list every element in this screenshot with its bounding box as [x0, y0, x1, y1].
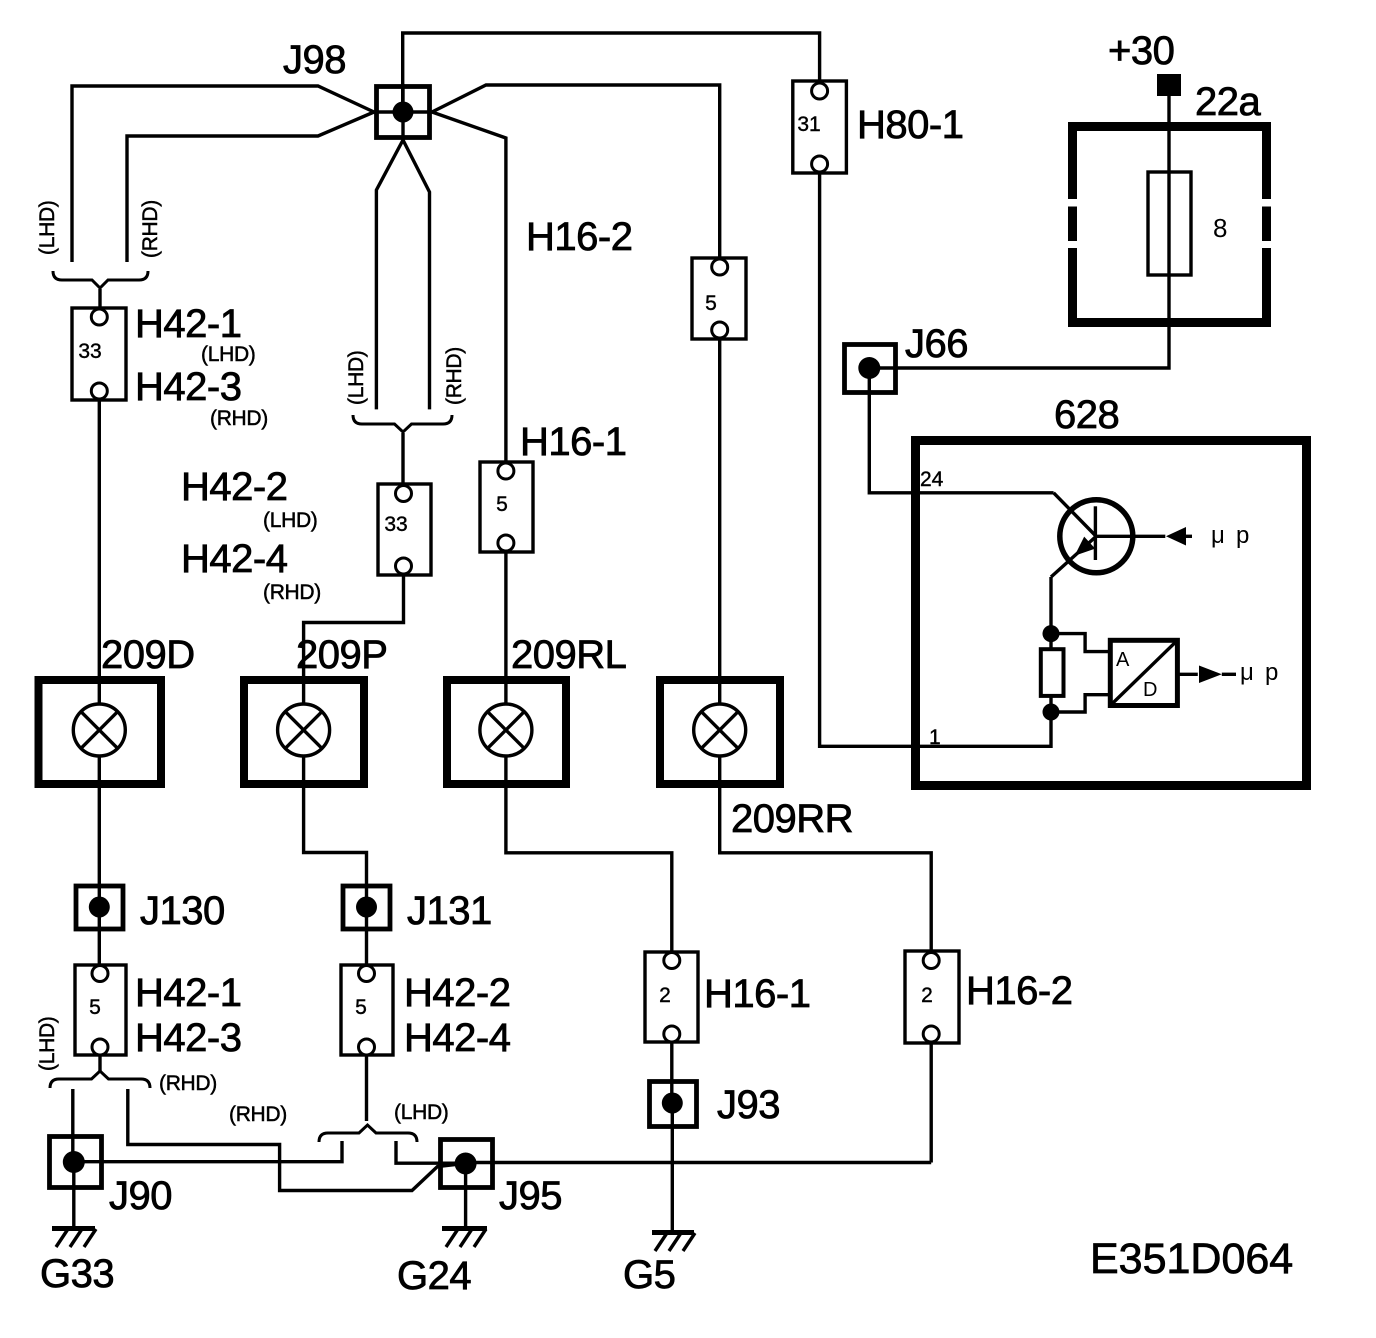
ground G24 — [442, 1229, 487, 1248]
svg-text:H42-3: H42-3 — [135, 365, 241, 409]
wire J130 to H42-1 lower — [98, 907, 101, 973]
wire H16-1 to lamp 209RL — [504, 543, 507, 705]
lamp 209RR — [660, 680, 780, 784]
lamp 209RL — [447, 680, 566, 784]
node dot lower (resistor/pin1) — [1043, 704, 1060, 721]
svg-text:H42-4: H42-4 — [181, 537, 288, 581]
svg-text:209RR: 209RR — [731, 797, 853, 841]
wire lamp 209D to J130 — [98, 756, 101, 907]
svg-text:G24: G24 — [397, 1254, 471, 1298]
svg-text:H16-2: H16-2 — [966, 969, 1072, 1013]
svg-text:2: 2 — [921, 984, 933, 1007]
wire J66 down to 628 pin 24 — [869, 368, 1053, 493]
brace LHD/RHD above H42-1 — [53, 271, 148, 288]
svg-text:5: 5 — [705, 292, 717, 315]
wire lamp 209RR to H16-2 lower — [720, 756, 932, 960]
ground G5 — [652, 1233, 695, 1252]
wire J98 bottom right (RHD) — [403, 140, 430, 409]
wire H16-2 lower down to J95 line — [930, 1034, 933, 1163]
junction J131 — [343, 886, 390, 929]
brace below H42-1 lower — [50, 1071, 150, 1088]
connector H42-2/H42-4 upper pin 33 — [378, 484, 431, 575]
brace LHD/RHD above H42-2 — [353, 415, 452, 432]
svg-text:J130: J130 — [140, 889, 225, 933]
svg-text:33: 33 — [384, 513, 407, 536]
wire J95 to ground G24 — [464, 1164, 467, 1229]
control unit 628 box — [916, 441, 1307, 786]
svg-text:H42-1: H42-1 — [135, 971, 241, 1015]
lamp 209P — [244, 680, 364, 784]
svg-text:H16-1: H16-1 — [520, 420, 626, 464]
junction J130 — [76, 886, 123, 929]
svg-text:24: 24 — [920, 468, 944, 491]
svg-text:(RHD): (RHD) — [229, 1103, 287, 1126]
svg-text:H42-1: H42-1 — [135, 302, 241, 346]
wire H16-1 lower to J93 — [670, 1034, 673, 1103]
wire J98 right lower to H16-1 — [432, 112, 506, 466]
svg-text:33: 33 — [78, 340, 101, 363]
wire brace to H42-2 — [401, 433, 404, 493]
wire J98 left upper (LHD) — [72, 86, 374, 262]
wire transistor emitter to resistor — [1049, 577, 1052, 634]
connector H16-1 upper pin 5 — [480, 462, 533, 552]
wire H80-1 to 628 pin 1 — [820, 164, 1051, 746]
junction J66 — [845, 345, 896, 393]
A/D converter box — [1110, 640, 1177, 705]
svg-text:(LHD): (LHD) — [36, 1017, 59, 1072]
svg-text:H42-3: H42-3 — [135, 1016, 241, 1060]
svg-text:1: 1 — [929, 726, 941, 749]
svg-text:H42-2: H42-2 — [181, 465, 287, 509]
svg-text:(RHD): (RHD) — [139, 200, 162, 258]
wire lamp 209RL to H16-1 lower — [506, 756, 672, 960]
svg-text:5: 5 — [355, 996, 367, 1019]
connector H42-1/H42-3 lower pin 5 — [75, 965, 126, 1055]
svg-text:5: 5 — [89, 996, 101, 1019]
svg-text:H16-2: H16-2 — [526, 215, 632, 259]
wire J95 right to H16-2 branch — [466, 1161, 932, 1164]
svg-text:(RHD): (RHD) — [210, 407, 268, 430]
svg-text:8: 8 — [1213, 213, 1227, 243]
arrow from microprocessor to transistor — [1166, 527, 1192, 546]
wire J131 to H42-2 lower — [365, 907, 368, 973]
svg-text:J93: J93 — [717, 1083, 780, 1127]
svg-text:5: 5 — [496, 493, 508, 516]
svg-text:A: A — [1116, 649, 1130, 671]
wire H42-1 lower to brace — [98, 1047, 101, 1072]
wire J98 right upper to H16-2 — [432, 85, 720, 262]
connector H16-2 lower pin 2 — [905, 951, 959, 1043]
svg-text:H16-1: H16-1 — [704, 972, 810, 1016]
wire node to A/D upper input — [1058, 634, 1110, 652]
svg-text:H80-1: H80-1 — [857, 103, 963, 147]
junction J98 — [374, 84, 432, 140]
wire J90 to ground G33 — [72, 1162, 75, 1228]
wire J93 to ground G5 — [671, 1103, 674, 1232]
arrow A/D output to microprocessor — [1177, 666, 1236, 684]
svg-text:μ: μ — [1240, 659, 1254, 686]
junction J93 — [650, 1082, 697, 1127]
wire H16-2 to lamp 209RR — [718, 330, 721, 705]
fuse box 22a dashed border — [1068, 122, 1271, 327]
svg-text:D: D — [1143, 679, 1157, 701]
svg-text:(LHD): (LHD) — [394, 1101, 449, 1124]
connector H80-1 pin 31 — [793, 81, 847, 173]
svg-text:31: 31 — [797, 113, 820, 136]
svg-text:J90: J90 — [109, 1174, 172, 1218]
svg-text:H42-4: H42-4 — [404, 1016, 511, 1060]
svg-text:H42-2: H42-2 — [404, 971, 510, 1015]
svg-text:(RHD): (RHD) — [443, 347, 466, 405]
fuse element 8 — [1148, 172, 1191, 275]
wire J98 left lower (RHD) — [127, 112, 374, 262]
node dot upper (emitter/resistor) — [1043, 625, 1060, 642]
wire brace to H42-1 — [98, 289, 101, 317]
wire H42-2 lower to centre brace — [365, 1047, 368, 1121]
svg-text:G5: G5 — [623, 1253, 675, 1297]
svg-text:p: p — [1265, 659, 1278, 686]
wire brace to J90 (LHD) — [71, 1089, 74, 1162]
connector H42-2/H42-4 lower pin 5 — [341, 965, 393, 1055]
power +30 terminal — [1157, 74, 1181, 96]
svg-text:(LHD): (LHD) — [36, 201, 59, 256]
svg-text:μ: μ — [1211, 522, 1225, 549]
svg-text:J66: J66 — [905, 322, 968, 366]
svg-text:(LHD): (LHD) — [345, 351, 368, 406]
connector H16-1 lower pin 2 — [645, 952, 698, 1042]
svg-text:2: 2 — [659, 984, 671, 1007]
junction J90 — [50, 1137, 102, 1188]
svg-text:(LHD): (LHD) — [201, 343, 256, 366]
connector H42-1/H42-3 upper pin 33 — [72, 308, 126, 400]
svg-text:22a: 22a — [1195, 80, 1261, 124]
svg-text:E351D064: E351D064 — [1090, 1235, 1293, 1283]
resistor (in 628) — [1041, 634, 1064, 712]
ground G33 — [52, 1229, 96, 1248]
svg-text:G33: G33 — [40, 1252, 114, 1296]
svg-text:J131: J131 — [407, 889, 492, 933]
svg-text:209P: 209P — [296, 633, 387, 677]
wire H42-1 to lamp 209D — [98, 391, 101, 705]
svg-text:209D: 209D — [101, 633, 195, 677]
svg-text:209RL: 209RL — [511, 633, 626, 677]
svg-text:(LHD): (LHD) — [263, 509, 318, 532]
lamp 209D — [39, 680, 162, 784]
wire H42-2 to lamp 209P — [304, 566, 404, 705]
wire centre brace right arm to J95 — [396, 1141, 466, 1163]
svg-text:628: 628 — [1054, 393, 1119, 437]
connector H16-2 upper pin 5 — [692, 258, 746, 339]
wire lamp 209P to J131 — [304, 756, 367, 907]
svg-text:J95: J95 — [499, 1174, 562, 1218]
svg-text:J98: J98 — [283, 38, 346, 82]
wire node to A/D lower input — [1058, 695, 1110, 712]
svg-text:(RHD): (RHD) — [159, 1072, 217, 1095]
wire fuse 22a to J66 — [869, 96, 1169, 368]
svg-text:+30: +30 — [1108, 29, 1174, 73]
centre brace (RHD)/(LHD) — [319, 1125, 417, 1142]
transistor Q (in 628) — [1051, 493, 1165, 577]
wire J98 top to H80-1 — [403, 33, 820, 112]
wire J98 bottom left (LHD) — [376, 140, 403, 409]
wire brace to J95 (RHD) — [128, 1089, 464, 1191]
junction J95 — [441, 1140, 493, 1188]
svg-text:(RHD): (RHD) — [263, 581, 321, 604]
svg-text:p: p — [1236, 522, 1249, 549]
wire J90 to centre brace left arm — [74, 1141, 342, 1162]
